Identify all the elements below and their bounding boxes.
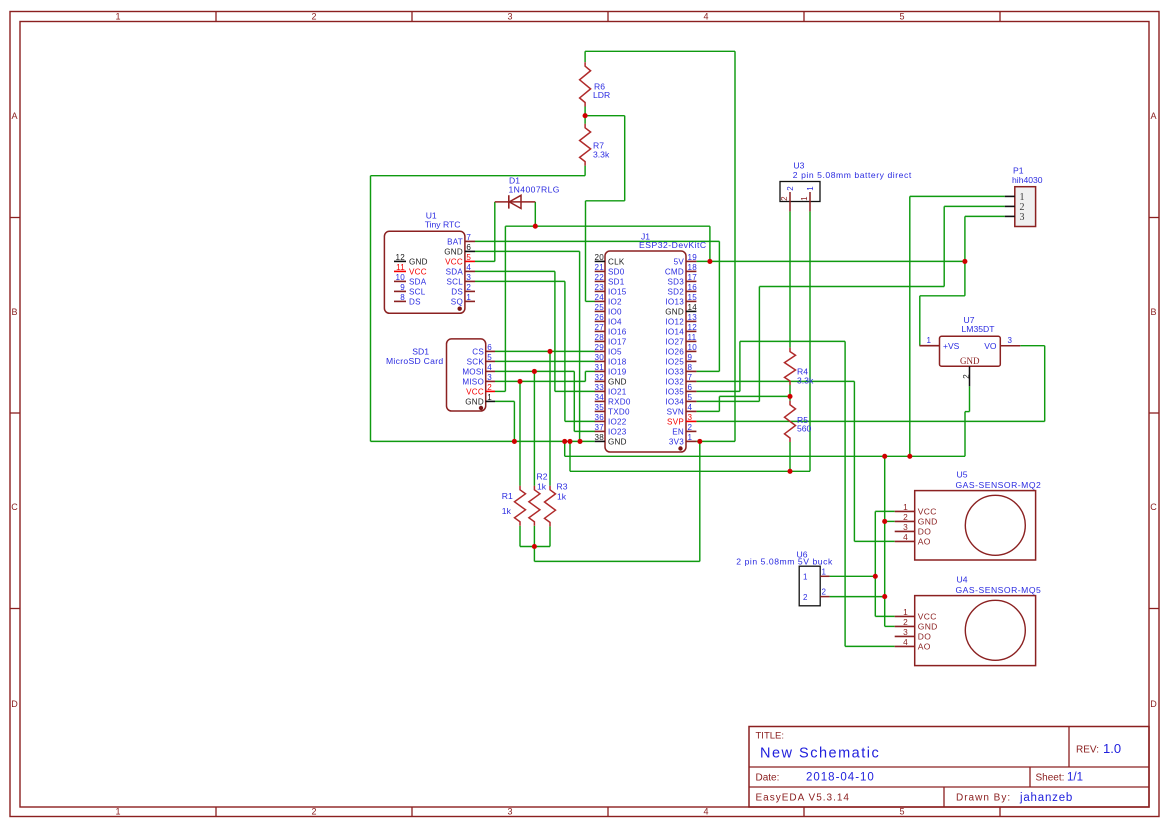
- svg-text:IO2: IO2: [608, 297, 622, 306]
- svg-text:3: 3: [487, 373, 492, 382]
- svg-text:2: 2: [786, 186, 795, 191]
- resistor R2 1k: [529, 486, 540, 526]
- svg-text:SCL: SCL: [409, 287, 426, 296]
- svg-text:jahanzeb: jahanzeb: [1019, 792, 1073, 804]
- junction D1 anode: [533, 224, 538, 229]
- wire R6-R7 node: [584, 107, 586, 124]
- svg-text:5: 5: [899, 807, 904, 817]
- svg-text:2 pin 5.08mm 5V buck: 2 pin 5.08mm 5V buck: [736, 557, 833, 567]
- svg-text:2 pin 5.08mm battery direct: 2 pin 5.08mm battery direct: [793, 170, 912, 180]
- svg-text:1: 1: [466, 293, 471, 302]
- svg-text:MISO: MISO: [462, 377, 484, 386]
- svg-text:R2: R2: [537, 472, 548, 482]
- U1 pin 4 SDA: [465, 270, 475, 272]
- svg-text:GAS-SENSOR-MQ5: GAS-SENSOR-MQ5: [956, 585, 1042, 595]
- P1 pin 3: [1005, 215, 1015, 217]
- svg-text:19: 19: [688, 253, 698, 262]
- svg-text:4: 4: [703, 12, 708, 22]
- svg-text:+VS: +VS: [943, 341, 960, 351]
- svg-text:21: 21: [594, 263, 604, 272]
- svg-text:hih4030: hih4030: [1012, 175, 1043, 185]
- svg-text:IO35: IO35: [665, 387, 684, 396]
- svg-text:IO22: IO22: [608, 417, 627, 426]
- U1 pin 5 VCC: [465, 260, 475, 262]
- junction gnd run P1: [907, 454, 912, 459]
- U1 pin 8 DS: [394, 300, 406, 302]
- wire U1 SCL to IO22: [475, 280, 565, 282]
- svg-text:IO19: IO19: [608, 367, 627, 376]
- SD1 pin 5 SCK: [486, 360, 495, 362]
- U7 pin 3 VO: [1000, 345, 1020, 347]
- J1 pin 27 IO16: [595, 330, 605, 332]
- svg-text:VCC: VCC: [466, 387, 484, 396]
- wire D1 anode to battery+: [534, 202, 536, 226]
- svg-text:SD2: SD2: [668, 287, 685, 296]
- wire SD1 CS to IO5: [495, 350, 595, 352]
- svg-text:GND: GND: [918, 516, 938, 526]
- svg-text:5: 5: [487, 353, 492, 362]
- wire U6 pin2: [830, 596, 885, 598]
- svg-text:R1: R1: [502, 491, 513, 501]
- svg-text:IO25: IO25: [665, 357, 684, 366]
- svg-text:3: 3: [1008, 336, 1013, 345]
- svg-text:2: 2: [903, 512, 908, 522]
- svg-text:29: 29: [594, 343, 604, 352]
- svg-text:3: 3: [903, 627, 908, 637]
- svg-text:2: 2: [311, 12, 316, 22]
- wire SD1 MOSI to IO23: [495, 370, 574, 372]
- J1 pin 9 IO25: [686, 360, 696, 362]
- wire R6/R7 node right jog: [585, 115, 625, 117]
- U4 pin 2 GND: [895, 625, 915, 627]
- svg-text:1k: 1k: [502, 506, 512, 516]
- svg-text:New Schematic: New Schematic: [760, 746, 880, 762]
- wire R6 top to 3V3 riser: [585, 50, 735, 52]
- SD1 pin 3 MISO: [486, 380, 495, 382]
- svg-text:RXD0: RXD0: [608, 397, 631, 406]
- junction R5 bottom: [787, 469, 792, 474]
- svg-text:23: 23: [594, 283, 604, 292]
- U1 pin 12 GND: [394, 260, 406, 262]
- svg-text:TXD0: TXD0: [608, 407, 630, 416]
- svg-text:33: 33: [594, 383, 604, 392]
- svg-text:MicroSD Card: MicroSD Card: [386, 356, 444, 366]
- svg-text:TITLE:: TITLE:: [756, 731, 785, 742]
- svg-text:1: 1: [803, 573, 808, 582]
- svg-text:4: 4: [703, 807, 708, 817]
- J1 pin 19 5V: [686, 260, 696, 262]
- svg-text:11: 11: [688, 333, 697, 342]
- J1 pin 30 IO18: [595, 360, 605, 362]
- svg-text:GND: GND: [465, 397, 484, 406]
- svg-text:1: 1: [115, 12, 120, 22]
- diode D1 1N4007RLG: [495, 201, 536, 203]
- svg-text:LM35DT: LM35DT: [962, 324, 996, 334]
- svg-text:AO: AO: [918, 641, 931, 651]
- wire P1 pin2 to IO34: [944, 205, 1005, 207]
- svg-text:U3: U3: [793, 161, 804, 171]
- svg-text:GND: GND: [608, 437, 627, 446]
- svg-text:35: 35: [594, 403, 604, 412]
- svg-text:2018-04-10: 2018-04-10: [806, 772, 875, 784]
- svg-text:4: 4: [466, 263, 471, 272]
- J1 pin1 dot: [678, 446, 682, 450]
- wire SVP to U7 VO: [696, 420, 1044, 422]
- svg-text:IO13: IO13: [665, 297, 684, 306]
- svg-text:IO18: IO18: [608, 357, 627, 366]
- svg-text:3.3k: 3.3k: [593, 150, 610, 160]
- junction SD1 GND: [512, 439, 517, 444]
- svg-text:30: 30: [594, 353, 604, 362]
- svg-text:1: 1: [903, 607, 908, 617]
- svg-text:3V3: 3V3: [669, 437, 684, 446]
- U3 pin 1: [809, 192, 811, 211]
- svg-text:CS: CS: [472, 347, 484, 356]
- svg-text:1: 1: [487, 393, 492, 402]
- svg-text:7: 7: [688, 373, 693, 382]
- SD1 pin 2 VCC: [486, 390, 495, 392]
- svg-text:1: 1: [822, 567, 827, 576]
- svg-text:5: 5: [899, 12, 904, 22]
- junction U5 GND: [882, 519, 887, 524]
- J1 pin 22 SD1: [595, 280, 605, 282]
- svg-text:SD0: SD0: [608, 267, 625, 276]
- J1 pin 5 IO34: [686, 400, 696, 402]
- svg-text:13: 13: [688, 313, 698, 322]
- junction R1R2R3 bottoms: [532, 544, 537, 549]
- svg-text:GAS-SENSOR-MQ2: GAS-SENSOR-MQ2: [956, 480, 1042, 490]
- svg-text:6: 6: [487, 343, 492, 352]
- J1 pin 20 CLK: [595, 260, 605, 262]
- svg-text:IO12: IO12: [665, 317, 684, 326]
- wire gnd dot1 leg down: [564, 441, 566, 456]
- SD1 pin 1 GND: [486, 400, 495, 402]
- wire R7 bottom lead: [584, 166, 586, 176]
- J1 pin 31 IO19: [595, 370, 605, 372]
- J1 pin 1 3V3: [686, 440, 696, 442]
- J1 pin 34 RXD0: [595, 400, 605, 402]
- wire gnd bus y=441.4: [371, 440, 595, 442]
- svg-text:EN: EN: [672, 427, 684, 436]
- svg-text:IO0: IO0: [608, 307, 622, 316]
- svg-text:SD1: SD1: [412, 347, 429, 357]
- J1 pin 7 IO32: [686, 380, 696, 382]
- J1 pin 14 GND: [686, 310, 696, 312]
- svg-text:IO5: IO5: [608, 347, 622, 356]
- wire R6 top lead: [584, 51, 586, 62]
- svg-text:8: 8: [688, 363, 693, 372]
- wire SD1 MISO to IO19 jog: [495, 380, 585, 382]
- svg-text:2: 2: [466, 283, 471, 292]
- wire LDR node to IO2: [585, 201, 587, 302]
- svg-text:MOSI: MOSI: [462, 367, 484, 376]
- svg-text:3: 3: [507, 12, 512, 22]
- wire U1 VCC to D1: [475, 260, 495, 262]
- wire SD1 SCK to IO18: [495, 360, 595, 362]
- U5 pin 4 AO: [895, 540, 915, 542]
- svg-text:IO34: IO34: [665, 397, 684, 406]
- svg-text:Drawn By:: Drawn By:: [956, 793, 1011, 804]
- svg-text:5V: 5V: [674, 257, 685, 266]
- svg-text:37: 37: [594, 423, 604, 432]
- wire U5 VCC to U6 pin1 / U4 VCC: [875, 510, 894, 512]
- J1 pin 33 IO21: [595, 390, 605, 392]
- J1 pin 36 IO22: [595, 420, 605, 422]
- U1 pin 10 SDA: [394, 280, 406, 282]
- svg-text:IO17: IO17: [608, 337, 627, 346]
- J1 pin 28 IO17: [595, 340, 605, 342]
- U1 pin 3 SCL: [465, 280, 475, 282]
- svg-text:26: 26: [594, 313, 604, 322]
- wire R4/R5 node to SVN: [719, 395, 790, 397]
- svg-text:4: 4: [688, 403, 693, 412]
- J1 pin 13 IO12: [686, 320, 696, 322]
- SD1 pin1 dot: [479, 406, 483, 410]
- junction 5V battery: [707, 259, 712, 264]
- U1 pin 11 VCC: [394, 270, 406, 272]
- wire U1 BAT to SVN... to IO33: [475, 240, 719, 242]
- svg-text:28: 28: [594, 333, 604, 342]
- J1 pin 32 GND: [595, 380, 605, 382]
- svg-text:REV:: REV:: [1076, 745, 1099, 756]
- P1 pin 1: [1005, 195, 1015, 197]
- wire P1 pin3 riser: [965, 215, 1005, 217]
- svg-text:IO4: IO4: [608, 317, 622, 326]
- svg-text:1: 1: [806, 186, 815, 191]
- svg-text:27: 27: [594, 323, 604, 332]
- wire R1 riser from MISO net: [519, 381, 521, 485]
- svg-text:9: 9: [688, 353, 693, 362]
- U5 pin 3 DO: [895, 530, 915, 532]
- svg-text:11: 11: [396, 263, 405, 272]
- svg-text:SCL: SCL: [447, 277, 464, 286]
- svg-text:12: 12: [395, 253, 405, 262]
- svg-text:16: 16: [688, 283, 698, 292]
- junction gnd bus 2: [567, 439, 572, 444]
- svg-text:EasyEDA V5.3.14: EasyEDA V5.3.14: [756, 793, 851, 804]
- svg-text:A: A: [1150, 111, 1156, 121]
- svg-text:B: B: [1150, 307, 1156, 317]
- svg-text:31: 31: [594, 363, 604, 372]
- svg-text:SVP: SVP: [667, 417, 684, 426]
- svg-text:VCC: VCC: [918, 506, 937, 516]
- svg-text:GND: GND: [409, 257, 428, 266]
- svg-text:DS: DS: [451, 287, 463, 296]
- svg-text:SQ: SQ: [451, 297, 463, 306]
- svg-text:SDA: SDA: [446, 267, 464, 276]
- svg-text:9: 9: [400, 283, 405, 292]
- J1 pin 11 IO27: [686, 340, 696, 342]
- wire 5V rail y=261.4: [696, 260, 965, 262]
- svg-text:VCC: VCC: [445, 257, 463, 266]
- svg-text:36: 36: [594, 413, 604, 422]
- wire SD1 GND to gnd bus: [495, 400, 514, 402]
- U1 pin 6 GND: [465, 250, 475, 252]
- J1 pin 18 CMD: [686, 270, 696, 272]
- svg-text:U4: U4: [957, 575, 968, 585]
- svg-text:D: D: [1150, 699, 1157, 709]
- svg-text:12: 12: [688, 323, 698, 332]
- svg-text:38: 38: [594, 433, 604, 442]
- wire U3 pin2 to R4: [789, 211, 791, 347]
- svg-text:1: 1: [903, 502, 908, 512]
- resistor R4 3.3k: [785, 348, 796, 385]
- wire IO32 to U5 AO: [696, 380, 854, 382]
- U1 pin1 dot: [458, 307, 462, 311]
- svg-text:1/1: 1/1: [1067, 772, 1083, 784]
- wire R5 bottom to gnd run: [789, 442, 791, 471]
- svg-text:IO23: IO23: [608, 427, 627, 436]
- svg-text:ESP32-DevKitC: ESP32-DevKitC: [639, 240, 707, 250]
- svg-text:5: 5: [466, 253, 471, 262]
- wire U1 SDA to IO21: [475, 270, 555, 272]
- SD1 pin 4 MOSI: [486, 370, 495, 372]
- svg-text:3: 3: [688, 413, 693, 422]
- svg-text:6: 6: [688, 383, 693, 392]
- svg-text:IO32: IO32: [665, 377, 684, 386]
- junction gnd bus 3: [577, 439, 582, 444]
- junction 5V P1 riser: [962, 259, 967, 264]
- resistor R6 LDR: [580, 62, 591, 106]
- U1 pin 9 SCL: [394, 290, 406, 292]
- svg-text:1N4007RLG: 1N4007RLG: [509, 185, 560, 195]
- junction U6 pin2 gnd: [882, 594, 887, 599]
- svg-text:DS: DS: [409, 297, 421, 306]
- U4 pin 1 VCC: [895, 615, 915, 617]
- svg-text:IO27: IO27: [665, 337, 684, 346]
- svg-text:34: 34: [594, 393, 604, 402]
- svg-text:22: 22: [594, 273, 604, 282]
- svg-text:LDR: LDR: [593, 90, 610, 100]
- junction MOSI/R2: [532, 369, 537, 374]
- svg-text:Sheet:: Sheet:: [1036, 773, 1065, 784]
- U4 pin 3 DO: [895, 635, 915, 637]
- P1 pin 2: [1005, 205, 1015, 207]
- junction IO5/R3: [547, 349, 552, 354]
- U5 pin 1 VCC: [895, 510, 915, 512]
- resistor R7 3.3k: [580, 124, 591, 166]
- J1 pin 16 SD2: [686, 290, 696, 292]
- svg-text:2: 2: [487, 383, 492, 392]
- svg-text:IO21: IO21: [608, 387, 627, 396]
- svg-text:8: 8: [400, 293, 405, 302]
- svg-text:17: 17: [688, 273, 698, 282]
- svg-text:IO14: IO14: [665, 327, 684, 336]
- svg-text:7: 7: [466, 233, 471, 242]
- J1 pin 37 IO23: [595, 430, 605, 432]
- svg-text:3: 3: [1020, 212, 1025, 223]
- J1 pin 8 IO33: [686, 370, 696, 372]
- svg-text:A: A: [11, 111, 17, 121]
- U1 pin 1 SQ: [465, 300, 475, 302]
- svg-text:3.3k: 3.3k: [797, 376, 814, 386]
- svg-text:SDA: SDA: [409, 277, 427, 286]
- svg-text:2: 2: [780, 196, 789, 201]
- J1 pin 3 SVP: [686, 420, 696, 422]
- svg-text:4: 4: [903, 637, 908, 647]
- svg-text:Tiny RTC: Tiny RTC: [425, 220, 461, 230]
- svg-text:1: 1: [927, 336, 932, 345]
- J1 pin 15 IO13: [686, 300, 696, 302]
- junction U6 pin1 5V: [873, 574, 878, 579]
- J1 pin 38 GND: [595, 440, 605, 442]
- svg-text:18: 18: [688, 263, 698, 272]
- J1 pin 23 IO15: [595, 290, 605, 292]
- wire R7 bottom to left loop: [371, 175, 586, 177]
- svg-text:25: 25: [594, 303, 604, 312]
- junction 3V3: [697, 439, 702, 444]
- svg-text:2: 2: [903, 617, 908, 627]
- svg-text:IO15: IO15: [608, 287, 627, 296]
- svg-text:CMD: CMD: [665, 267, 684, 276]
- wire IO35 to U4 AO path: [696, 390, 740, 392]
- wire P1 pin1 to gnd run: [910, 195, 1005, 197]
- U5 pin 2 GND: [895, 520, 915, 522]
- svg-text:DO: DO: [918, 526, 931, 536]
- wire battery+ riser to SD1 VCC x=505.4: [504, 226, 506, 391]
- svg-text:1k: 1k: [557, 492, 567, 502]
- wire 3V3 pin to riser: [696, 440, 735, 442]
- svg-text:SVN: SVN: [667, 407, 684, 416]
- svg-text:VCC: VCC: [918, 611, 937, 621]
- svg-text:15: 15: [688, 293, 698, 302]
- svg-text:4: 4: [487, 363, 492, 372]
- svg-text:CLK: CLK: [608, 257, 625, 266]
- U3 pin 2: [789, 192, 791, 211]
- wire gnd run y=471.3 to U3 pin1: [570, 470, 810, 472]
- svg-text:GND: GND: [960, 356, 980, 366]
- svg-text:1: 1: [115, 807, 120, 817]
- J1 pin 35 TXD0: [595, 410, 605, 412]
- svg-text:3: 3: [903, 522, 908, 532]
- wire 5V jog to U7 +VS: [964, 261, 966, 295]
- svg-text:1: 1: [800, 196, 809, 201]
- svg-text:1: 1: [688, 433, 693, 442]
- svg-text:BAT: BAT: [447, 237, 463, 246]
- wire U3 pin1 down: [809, 211, 811, 471]
- wire gnd dot2 leg down: [569, 441, 571, 471]
- svg-text:VCC: VCC: [409, 267, 427, 276]
- U7 pin 1 +VS: [920, 345, 940, 347]
- svg-text:GND: GND: [918, 621, 938, 631]
- J1 pin 17 SD3: [686, 280, 696, 282]
- U6 pin 2: [820, 596, 829, 598]
- wire U6 pin1: [830, 575, 876, 577]
- wire U1 GND down to gnd bus: [475, 250, 580, 252]
- junction MISO/R1: [517, 379, 522, 384]
- svg-text:5: 5: [688, 393, 693, 402]
- wire R3 riser from IO5 net: [549, 351, 551, 485]
- wire gnd run y=456.3 to U7 GND: [565, 455, 965, 457]
- wire gnd leg to U5/U4 GND x=884.7: [884, 456, 886, 626]
- svg-text:C: C: [11, 502, 18, 512]
- wire left loop vertical x=370.5: [370, 176, 372, 442]
- svg-text:3: 3: [466, 273, 471, 282]
- svg-text:2: 2: [962, 374, 971, 379]
- svg-text:VO: VO: [984, 341, 997, 351]
- svg-text:20: 20: [594, 253, 604, 262]
- wire 3V3 riser vertical x=735: [734, 51, 736, 441]
- svg-text:GND: GND: [665, 307, 684, 316]
- junction gnd bus 1: [562, 439, 567, 444]
- wire R2 riser from MOSI net: [533, 371, 535, 485]
- svg-text:3: 3: [507, 807, 512, 817]
- svg-text:IO33: IO33: [665, 367, 684, 376]
- svg-text:10: 10: [688, 343, 698, 352]
- U1 pin 7 BAT: [465, 240, 475, 242]
- svg-text:2: 2: [688, 423, 693, 432]
- SD1 pin 6 CS: [486, 350, 495, 352]
